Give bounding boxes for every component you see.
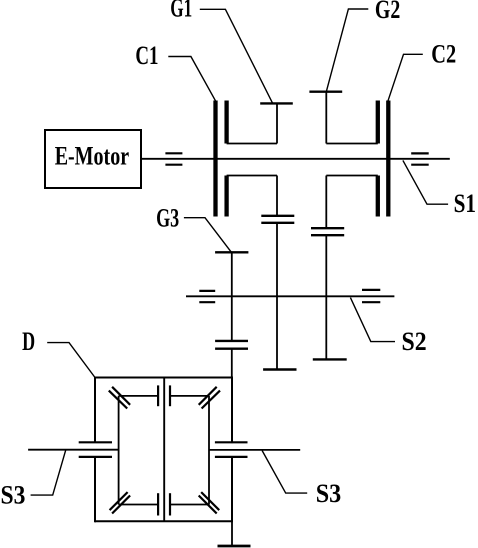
- bevel gear hatch bottom-left: [110, 492, 131, 513]
- svg-text:S3: S3: [316, 479, 342, 508]
- bevel gear hatch top-right: [199, 387, 220, 409]
- side gear tick top right: [169, 385, 171, 406]
- wire: C1 to G1 upper link: [227, 143, 277, 145]
- gear G1: [260, 103, 293, 143]
- label S1: [403, 160, 476, 218]
- side gear tick bottom left: [157, 493, 159, 515]
- wire: G2 to C2 upper link: [326, 143, 378, 145]
- svg-text:D: D: [22, 327, 35, 356]
- gear mesh under G3: [215, 341, 248, 349]
- bevel gear hatch top-left: [109, 387, 130, 409]
- label G1: [170, 0, 272, 103]
- differential inner cage right: [208, 396, 210, 505]
- svg-text:C2: C2: [431, 39, 456, 68]
- shaft S3 right: [209, 449, 300, 451]
- label D: [22, 327, 95, 377]
- svg-text:S3: S3: [1, 481, 26, 510]
- clutch C1: [216, 101, 227, 217]
- bearing: input shaft bearing: [165, 153, 182, 164]
- axle: top left: [119, 395, 158, 397]
- shaft S2: [186, 295, 394, 297]
- wire: G3 mesh to differential: [231, 349, 233, 378]
- differential inner cage left: [118, 396, 120, 505]
- gear mesh under G1: [261, 216, 294, 223]
- svg-text:C1: C1: [135, 41, 158, 70]
- wire: G1 column lower stem: [276, 176, 278, 216]
- label G2: [326, 0, 400, 92]
- differential D housing: [95, 377, 232, 523]
- label S3 right: [262, 451, 341, 508]
- label C1: [135, 41, 215, 101]
- side gear tick top left: [157, 385, 159, 406]
- wire: G2 to C2 lower link: [326, 175, 378, 177]
- axle: bottom left: [119, 504, 158, 506]
- bearing: differential left: [79, 442, 112, 457]
- svg-text:G3: G3: [156, 204, 179, 233]
- axle: bottom right: [170, 504, 209, 506]
- wire: G1 mesh to S2 gear stem: [276, 223, 278, 370]
- gear G2: [309, 92, 342, 144]
- wire: C1 lower link: [227, 175, 277, 177]
- wire: G2 mesh to S2 gear stem: [325, 235, 327, 359]
- gear mesh under G2: [311, 228, 344, 235]
- label S3 left: [1, 450, 66, 510]
- svg-text:S2: S2: [402, 327, 427, 356]
- bearing: S1 shaft bearing: [411, 153, 429, 164]
- gear G3: [215, 252, 248, 341]
- gear on S2 (G2 pair): [313, 358, 347, 360]
- gear on S2 (G1 pair): [263, 368, 296, 370]
- differential carrier centerline: [163, 378, 165, 522]
- svg-text:E-Motor: E-Motor: [55, 142, 129, 171]
- shaft S3 left: [28, 449, 119, 451]
- label S2: [350, 298, 426, 356]
- output gear bar: [218, 545, 251, 548]
- label G3: [156, 204, 231, 253]
- svg-text:G2: G2: [375, 0, 400, 24]
- bevel gear hatch bottom-right: [199, 492, 220, 513]
- svg-text:G1: G1: [170, 0, 192, 23]
- wire: G2 column lower stem: [325, 176, 327, 229]
- bearing: differential right: [215, 442, 248, 457]
- clutch C2: [378, 101, 389, 217]
- output stem below differential: [231, 521, 233, 545]
- E-Motor box: [45, 130, 141, 188]
- bearing: S2 left: [199, 291, 215, 302]
- side gear tick bottom right: [169, 493, 171, 515]
- bearing: S2 right: [362, 290, 380, 302]
- axle: top right: [170, 395, 209, 397]
- shaft: main input shaft: [141, 158, 450, 160]
- svg-text:S1: S1: [454, 189, 476, 218]
- label C2: [388, 39, 456, 100]
